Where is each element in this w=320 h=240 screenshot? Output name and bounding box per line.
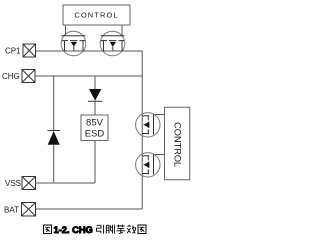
wire ESD box to VSS rail xyxy=(94,141,96,184)
wire left bus upper xyxy=(53,76,55,131)
wire left bus lower xyxy=(53,145,55,184)
wire gate lead M2 xyxy=(121,25,123,36)
svg-text:CHG: CHG xyxy=(2,72,20,81)
pin CHG xyxy=(22,70,35,83)
transistor M2 xyxy=(100,31,125,56)
control box U1 (top) xyxy=(63,5,130,25)
svg-text:VSS: VSS xyxy=(5,179,21,188)
svg-text:CONTROL: CONTROL xyxy=(74,11,118,20)
gate lead M3 xyxy=(154,114,165,116)
svg-text:BAT: BAT xyxy=(4,206,19,215)
transistor M1 xyxy=(61,31,86,56)
wire gate lead M1 xyxy=(65,25,67,36)
wire middle branch upper xyxy=(94,76,96,89)
svg-text:85V: 85V xyxy=(86,118,104,129)
svg-text:ESD: ESD xyxy=(85,129,105,140)
glyph 等 xyxy=(116,225,125,234)
glyph 图 xyxy=(44,225,52,234)
transistor M3 xyxy=(136,113,165,137)
gate lead M4 xyxy=(154,154,165,156)
caption 图 1-2. CHG 引脚等效图 xyxy=(44,225,147,235)
glyph 脚 xyxy=(106,225,114,234)
pin BAT xyxy=(22,203,36,217)
wire right bus xyxy=(141,51,143,209)
wire CHG net xyxy=(35,75,142,77)
pin VSS xyxy=(22,177,36,190)
pin CP1 xyxy=(23,44,36,57)
glyph 图 (second) xyxy=(138,225,146,234)
node top bus CP1 xyxy=(35,50,142,52)
diode D2 (middle, pointing down) xyxy=(88,89,102,101)
wire diode to ESD box xyxy=(94,101,96,115)
svg-text:1-2. CHG: 1-2. CHG xyxy=(54,225,93,235)
control box U2 (right) xyxy=(165,107,190,180)
wire VSS rail xyxy=(36,182,96,184)
ESD box xyxy=(81,115,108,141)
diode D1 (left, pointing up) xyxy=(48,131,61,145)
svg-text:CONTROL: CONTROL xyxy=(171,122,182,167)
wire BAT rail xyxy=(36,208,143,210)
glyph 效 xyxy=(127,225,135,234)
transistor M4 xyxy=(136,153,165,177)
svg-text:CP1: CP1 xyxy=(5,47,21,56)
glyph 引 xyxy=(97,225,104,234)
